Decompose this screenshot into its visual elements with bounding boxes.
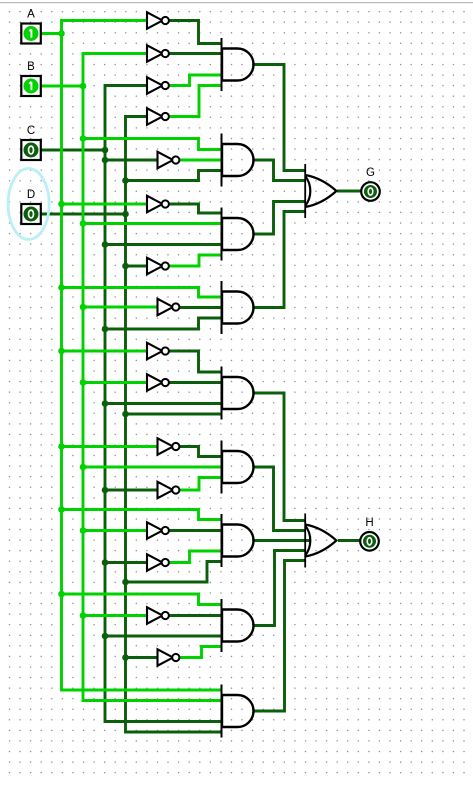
wire A to NOT9 bbox=[62, 350, 148, 353]
wire NOT7 out bbox=[168, 255, 222, 266]
inverter NOT6 bbox=[147, 196, 169, 212]
svg-text:H: H bbox=[365, 517, 373, 529]
wire NOT12 out bbox=[179, 478, 222, 491]
wire NOT16 out bbox=[179, 647, 222, 658]
input pin B bbox=[21, 61, 41, 96]
inverter NOT13 bbox=[147, 522, 169, 538]
wire B pin lead bbox=[41, 85, 83, 88]
junction node at (83,382.5) bbox=[80, 379, 87, 386]
wire NOT6 out bbox=[168, 204, 222, 213]
wire AND6 out bbox=[254, 467, 306, 531]
junction node at (105,160) bbox=[102, 157, 109, 164]
wire NOT2 out bbox=[168, 52, 222, 55]
wire B to AND3 bbox=[83, 222, 222, 225]
wire D bus bbox=[126, 117, 222, 733]
wire NOT8 out bbox=[179, 306, 222, 309]
wire C to NOT12 bbox=[105, 489, 158, 492]
wire OR1 out bbox=[337, 190, 361, 193]
junction node at (61.5,509.5) bbox=[58, 506, 65, 513]
wire NOT5 out bbox=[179, 159, 222, 162]
junction node at (61.5,351) bbox=[58, 348, 65, 355]
input pin D bbox=[21, 189, 41, 224]
junction node at (125.5,266) bbox=[122, 263, 129, 270]
junction node at (105,150) bbox=[102, 147, 109, 154]
junction node at (83,138.5) bbox=[80, 135, 87, 142]
junction node at (61.5,204) bbox=[58, 201, 65, 208]
wire B to NOT10 bbox=[83, 381, 147, 384]
inverter NOT4 bbox=[147, 108, 169, 124]
wire A to AND8 bbox=[62, 594, 222, 605]
wire C to NOT14 bbox=[105, 561, 147, 564]
inverter NOT7 bbox=[147, 258, 169, 274]
wire C to AND3 bbox=[105, 243, 222, 246]
AND gate AND6 bbox=[222, 441, 254, 494]
junction node at (125.5,414) bbox=[122, 411, 129, 418]
wire NOT1 out bbox=[168, 21, 222, 44]
AND gate AND5 bbox=[222, 367, 254, 420]
wire A to AND7 bbox=[62, 510, 222, 520]
OR gate OR1 (G) bbox=[305, 164, 336, 218]
wire C bus bbox=[105, 86, 222, 722]
AND gate AND8 bbox=[222, 599, 254, 652]
wire D to NOT7 bbox=[126, 265, 148, 268]
svg-text:C: C bbox=[27, 125, 35, 137]
AND gate AND3 bbox=[222, 208, 254, 261]
wire B to NOT8 bbox=[83, 306, 158, 309]
junction node at (105,244.5) bbox=[102, 241, 109, 248]
inverter NOT2 bbox=[147, 45, 169, 61]
wire NOT14 out bbox=[168, 551, 222, 563]
junction node at (105,562.5) bbox=[102, 559, 109, 566]
junction node at (105,403.5) bbox=[102, 400, 109, 407]
junction node at (83,86) bbox=[80, 83, 87, 90]
wire NOT11 out bbox=[179, 447, 222, 457]
wire NOT9 out bbox=[168, 351, 222, 372]
inverter NOT15 bbox=[147, 607, 169, 623]
wire AND7 out bbox=[254, 539, 311, 542]
wire C to AND5 bbox=[105, 402, 222, 405]
wire NOT3 out bbox=[168, 75, 222, 86]
svg-text:A: A bbox=[27, 8, 35, 20]
wire AND9 out bbox=[254, 561, 306, 712]
wire C pin lead bbox=[41, 149, 105, 152]
junction node at (125.5,214) bbox=[122, 211, 129, 218]
AND gate AND9 bbox=[222, 685, 254, 738]
wire A to NOT11 bbox=[62, 445, 158, 448]
wire B to AND2 bbox=[83, 139, 222, 150]
wire NOT15 out bbox=[168, 614, 222, 617]
wire B to AND6 bbox=[83, 466, 222, 469]
wire AND3 out bbox=[254, 202, 306, 235]
wire D to AND2 bbox=[126, 171, 222, 181]
output pin G bbox=[361, 167, 380, 201]
wire A to NOT6 bbox=[62, 203, 148, 206]
AND gate AND1 bbox=[222, 38, 254, 91]
inverter NOT14 bbox=[147, 554, 169, 570]
output pin H bbox=[360, 517, 379, 551]
junction node at (61.5,287.5) bbox=[58, 284, 65, 291]
junction node at (83,530.5) bbox=[80, 527, 87, 534]
junction node at (61.5,33.5) bbox=[58, 30, 65, 37]
OR gate OR2 (H) bbox=[305, 514, 336, 568]
svg-text:G: G bbox=[366, 167, 375, 179]
inverter NOT5 bbox=[158, 152, 180, 168]
inverter NOT8 bbox=[158, 299, 180, 315]
input pin C bbox=[21, 125, 41, 160]
inverter NOT16 bbox=[158, 649, 180, 665]
svg-text:D: D bbox=[27, 189, 35, 201]
junction node at (105,636) bbox=[102, 633, 109, 640]
wire AND4 out bbox=[254, 212, 306, 308]
junction node at (83,615.5) bbox=[80, 612, 87, 619]
inverter NOT11 bbox=[158, 438, 180, 454]
wire AND8 out bbox=[254, 551, 306, 626]
svg-text:B: B bbox=[27, 61, 35, 73]
junction node at (83,467) bbox=[80, 464, 87, 471]
wire D to NOT16 bbox=[126, 656, 158, 659]
wire NOT13 out bbox=[168, 529, 222, 532]
inverter NOT3 bbox=[147, 77, 169, 93]
junction node at (125.5,582) bbox=[122, 579, 129, 586]
inverter NOT10 bbox=[147, 374, 169, 390]
junction node at (61.5,446.5) bbox=[58, 443, 65, 450]
wire A pin lead bbox=[41, 32, 62, 35]
wire NOT10 out bbox=[168, 381, 222, 384]
AND gate AND7 bbox=[222, 514, 254, 567]
junction node at (61.5,594) bbox=[58, 591, 65, 598]
junction node at (83,223.5) bbox=[80, 220, 87, 227]
inverter NOT12 bbox=[158, 482, 180, 498]
wire A to AND4 bbox=[62, 288, 222, 298]
wire B to NOT15 bbox=[83, 614, 147, 617]
annotation ellipse around pin D bbox=[8, 169, 49, 240]
wire D to AND7 bbox=[126, 562, 222, 583]
junction node at (83,307) bbox=[80, 304, 87, 311]
wire OR2 out bbox=[338, 539, 361, 542]
wire A bus bbox=[62, 21, 222, 691]
wire AND2 out bbox=[254, 160, 306, 181]
input pin A bbox=[21, 8, 41, 43]
wire B to NOT13 bbox=[83, 529, 147, 532]
junction node at (125.5,180.5) bbox=[122, 177, 129, 184]
wire D to AND5 bbox=[126, 413, 222, 416]
wire B bus bbox=[83, 54, 222, 701]
wire NOT4 out bbox=[168, 86, 222, 117]
window top border line bbox=[0, 2, 473, 3]
wire AND1 out bbox=[254, 65, 306, 171]
junction node at (105,329) bbox=[102, 326, 109, 333]
AND gate AND2 bbox=[222, 134, 254, 187]
wire C to AND8 bbox=[105, 635, 222, 638]
wire C to NOT5 bbox=[105, 159, 158, 162]
wire D pin lead bbox=[41, 213, 126, 216]
inverter NOT1 bbox=[147, 12, 169, 28]
junction node at (105,490) bbox=[102, 487, 109, 494]
junction node at (125.5,657.5) bbox=[122, 654, 129, 661]
inverter NOT9 bbox=[147, 343, 169, 359]
AND gate AND4 bbox=[222, 281, 254, 334]
wire C to AND4 bbox=[105, 318, 222, 329]
wire AND5 out bbox=[254, 393, 306, 521]
